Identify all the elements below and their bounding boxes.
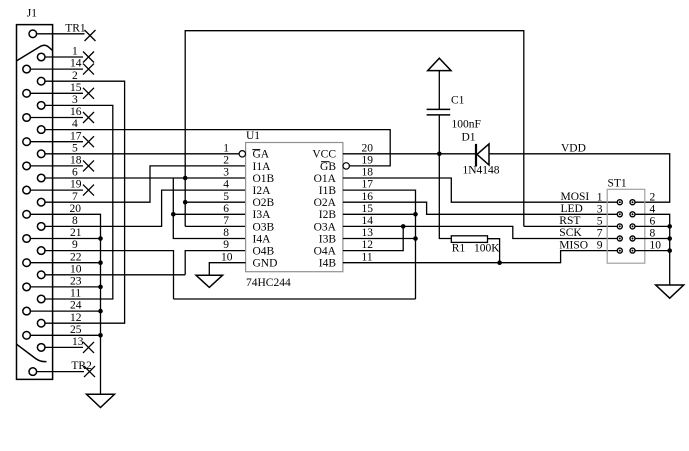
svg-text:TR1: TR1: [65, 22, 86, 34]
diode D1 1N4148: [476, 144, 489, 167]
junction rail/O2B: [183, 200, 188, 205]
svg-text:13: 13: [362, 227, 374, 239]
wire U1 pin12 O4A joins O3A: [343, 226, 403, 250]
svg-text:O2B: O2B: [253, 197, 275, 209]
svg-text:O1B: O1B: [253, 173, 275, 185]
svg-text:22: 22: [70, 251, 82, 263]
wire U1 pin14 O3A to ST1 SCK: [343, 226, 617, 238]
svg-text:1N4148: 1N4148: [463, 165, 500, 177]
J1 pin number labels: [65, 22, 92, 372]
J1 pin circles: [23, 30, 45, 375]
wire rail to U1 pin7 O3B: [185, 225, 245, 227]
wire J1 pin18 no-connect: [31, 165, 83, 167]
svg-text:10: 10: [70, 263, 82, 275]
wire J1 pin21 ground stub: [31, 238, 101, 240]
svg-text:8: 8: [223, 227, 229, 239]
svg-text:13: 13: [72, 336, 84, 348]
wire U1 pin18 O1A to ST1 MOSI: [343, 178, 617, 202]
svg-text:VCC: VCC: [312, 149, 336, 161]
svg-text:14: 14: [70, 58, 82, 70]
svg-text:J1: J1: [27, 8, 37, 20]
connector J1 body: [17, 25, 53, 380]
svg-text:15: 15: [362, 203, 374, 215]
svg-text:19: 19: [70, 179, 82, 191]
wire J1 pin10 stub: [45, 274, 185, 276]
svg-text:9: 9: [72, 239, 78, 251]
overline on GB: [321, 161, 330, 163]
U1 left pin names: [253, 149, 278, 270]
svg-text:18: 18: [362, 167, 374, 179]
wire U1 pin17 I1B to readback bus: [343, 190, 416, 299]
junction VCC/C1/R1: [437, 152, 442, 157]
svg-text:15: 15: [70, 82, 82, 94]
wire I3A tap: [173, 213, 245, 215]
svg-text:5: 5: [223, 191, 229, 203]
svg-text:24: 24: [70, 300, 82, 312]
svg-text:11: 11: [362, 251, 373, 263]
svg-text:10: 10: [650, 240, 662, 252]
svg-text:1: 1: [223, 142, 229, 154]
svg-text:18: 18: [70, 155, 82, 167]
wire ACK net under U1 to readback bus: [174, 298, 416, 300]
svg-text:12: 12: [362, 239, 374, 251]
svg-text:6: 6: [223, 203, 229, 215]
wire J1 pin14 no-connect: [31, 68, 83, 70]
svg-text:U1: U1: [246, 130, 260, 142]
no-connect X at pin18: [83, 160, 94, 171]
wire J1 pin8 to U1 pin4 I2A: [45, 190, 245, 226]
wire J1 pin2 to J1 pin12 loopback: [45, 81, 124, 323]
junction ST1 pin10/ground: [667, 248, 672, 253]
wire J1 pin24 ground stub: [31, 310, 101, 312]
svg-text:R1: R1: [452, 243, 466, 255]
svg-text:9: 9: [597, 240, 603, 252]
junction ST1 pin6/ground: [667, 224, 672, 229]
svg-text:17: 17: [362, 179, 374, 191]
junction J1 pin24/ground: [98, 309, 103, 314]
no-connect X at pin13: [83, 342, 94, 353]
wire rail to ST1 RST: [524, 225, 617, 227]
ground symbol below U1: [196, 275, 223, 287]
junction J1 pin23/ground: [98, 285, 103, 290]
svg-text:C1: C1: [451, 95, 465, 107]
junction J1 pin25/ground: [98, 333, 103, 338]
svg-text:20: 20: [70, 203, 82, 215]
junction R1/MISO: [497, 260, 502, 265]
wire J1 pin13 no-connect: [45, 346, 83, 348]
svg-text:MOSI: MOSI: [561, 191, 590, 203]
svg-text:SCK: SCK: [559, 227, 582, 239]
wire ST1 pin4 to ground: [636, 214, 670, 285]
svg-text:I1B: I1B: [319, 185, 337, 197]
wire J1 pin23 ground stub: [31, 286, 101, 288]
wire J1 pin6 to U1 pin3 O1B: [45, 177, 245, 179]
no-connect X at pin15: [83, 88, 94, 99]
junction O4A/O3A: [401, 224, 406, 229]
junction I3B/readback: [413, 236, 418, 241]
svg-text:O3B: O3B: [253, 221, 275, 233]
wire D1 anode to VDD / ST1 pin2: [489, 154, 670, 202]
svg-text:I3A: I3A: [253, 209, 272, 221]
svg-text:6: 6: [72, 167, 78, 179]
junction J1 pin21/ground: [98, 236, 103, 241]
junction rail/O1B row: [183, 176, 188, 181]
svg-text:I2B: I2B: [319, 209, 337, 221]
svg-text:19: 19: [362, 155, 374, 167]
junction I3A tap: [171, 212, 176, 217]
svg-text:I3B: I3B: [319, 233, 337, 245]
wire U1 pin11 I4B MISO to ST1 MISO: [343, 251, 617, 263]
svg-text:O1A: O1A: [314, 173, 337, 185]
svg-text:O2A: O2A: [314, 197, 337, 209]
U1 right pin names: [312, 149, 336, 270]
svg-text:2: 2: [223, 155, 229, 167]
wire J1 pin5 to U1 pin1 GA enable: [45, 153, 239, 155]
wire J1 pin20 to ground rail: [31, 214, 101, 394]
wire U1 pin16 O2A to ST1 LED: [343, 202, 617, 214]
svg-text:2: 2: [650, 191, 656, 203]
wire J1 pin22 ground stub: [31, 262, 101, 264]
svg-text:MISO: MISO: [559, 239, 588, 251]
svg-text:8: 8: [650, 228, 656, 240]
wire U1 pin13 I3B to readback bus: [343, 238, 416, 240]
wire J1 pin4 to U1 pin19 GB enable: [45, 130, 390, 166]
svg-text:7: 7: [223, 215, 229, 227]
svg-text:1: 1: [72, 46, 78, 58]
no-connect X at pin19: [83, 185, 94, 196]
wire U1 pin20 VCC rail to diode: [343, 153, 475, 155]
svg-text:7: 7: [72, 191, 78, 203]
svg-text:20: 20: [362, 142, 374, 154]
header ST1 box: [607, 189, 645, 263]
wire J1 TR1 no-connect: [37, 33, 85, 35]
U1 left pin numbers: [221, 142, 233, 263]
svg-text:17: 17: [70, 130, 82, 142]
svg-text:3: 3: [223, 167, 229, 179]
no-connect X at pin14: [83, 64, 94, 75]
svg-text:12: 12: [70, 312, 82, 324]
no-connect X at TR1: [85, 30, 96, 41]
svg-text:GA: GA: [253, 149, 270, 161]
ST1 pin pads: [617, 200, 635, 253]
svg-text:I4A: I4A: [253, 233, 272, 245]
wire J1 pin17 no-connect: [31, 141, 83, 143]
ground symbol below J1: [87, 394, 115, 407]
VCC arrow power symbol: [428, 58, 451, 70]
ST1 pad center dots: [619, 201, 634, 251]
no-connect X at pin16: [83, 112, 94, 123]
svg-text:ST1: ST1: [608, 177, 627, 189]
svg-text:O4B: O4B: [253, 246, 275, 258]
svg-text:16: 16: [70, 106, 82, 118]
svg-text:5: 5: [597, 216, 603, 228]
IC U1 box: [246, 143, 343, 272]
wire R1 right lead to MISO net: [488, 239, 500, 263]
wire J1 pin7 to U1 pin2 I1A: [45, 166, 245, 202]
wire VCC arrow to C1: [438, 71, 440, 110]
svg-text:10: 10: [221, 251, 233, 263]
wire J1 pin15 no-connect: [31, 92, 83, 94]
svg-text:RST: RST: [559, 215, 580, 227]
no-connect X at pin1: [83, 52, 94, 63]
svg-text:5: 5: [72, 142, 78, 154]
junction I2B/readback: [413, 212, 418, 217]
svg-text:7: 7: [597, 228, 603, 240]
svg-text:4: 4: [650, 203, 656, 215]
wire ST1 pin10 ground stub: [636, 250, 670, 252]
U1 pin1 GA inversion bubble: [239, 151, 245, 157]
wire U1 pin10 GND to ground: [209, 263, 245, 276]
ST1 left pin numbers: [597, 191, 603, 251]
svg-text:9: 9: [223, 239, 229, 251]
capacitor C1: [427, 109, 451, 115]
top bus rail: [185, 31, 524, 227]
svg-text:100K: 100K: [474, 243, 500, 255]
wire ST1 pin8 ground stub: [636, 238, 670, 240]
svg-text:O4A: O4A: [314, 246, 337, 258]
U1 pin19 GB inversion bubble: [343, 163, 349, 169]
svg-text:O3A: O3A: [314, 221, 337, 233]
wire J1 pin3 to J1 pin11 loopback: [45, 105, 113, 299]
svg-text:GND: GND: [253, 258, 278, 270]
wire C1 to VCC rail and down to R1: [439, 115, 451, 239]
svg-text:74HC244: 74HC244: [246, 277, 291, 289]
svg-text:21: 21: [70, 227, 82, 239]
svg-text:I1A: I1A: [253, 161, 272, 173]
wire O1B net down to I3A and I4A: [173, 178, 245, 239]
svg-text:25: 25: [70, 324, 82, 336]
wire J1 pin9 down to ACK net: [45, 251, 173, 299]
junction ST1 pin8/ground: [667, 236, 672, 241]
U1 right pin numbers: [362, 142, 374, 263]
svg-text:GB: GB: [320, 161, 336, 173]
junction J1 pin22/ground: [98, 260, 103, 265]
svg-text:I4B: I4B: [319, 258, 337, 270]
svg-text:3: 3: [72, 94, 78, 106]
resistor R1: [451, 236, 487, 243]
wire J1 pin19 no-connect: [31, 189, 83, 191]
ground symbol below ST1: [656, 285, 684, 298]
wire rail tap to U1 pin5 O2B: [185, 201, 245, 203]
svg-text:1: 1: [597, 191, 603, 203]
svg-text:6: 6: [650, 216, 656, 228]
svg-text:LED: LED: [561, 203, 583, 215]
svg-text:2: 2: [72, 70, 78, 82]
svg-text:14: 14: [362, 215, 374, 227]
svg-text:23: 23: [70, 276, 82, 288]
overline on GA: [252, 149, 260, 151]
wire J1 TR2 no-connect: [37, 371, 84, 373]
wire ST1 pin6 ground stub: [636, 225, 670, 227]
wire O4B riser to J1 pin10 wire: [185, 251, 245, 275]
svg-text:16: 16: [362, 191, 374, 203]
wire J1 pin1 no-connect: [45, 56, 83, 58]
svg-text:4: 4: [72, 118, 78, 130]
svg-text:3: 3: [597, 203, 603, 215]
wire U1 pin15 I2B to readback bus: [343, 213, 416, 215]
no-connect X at pin17: [83, 136, 94, 147]
wire J1 pin25 ground stub: [31, 334, 101, 336]
no-connect X at TR2: [84, 366, 95, 377]
svg-text:D1: D1: [462, 132, 476, 144]
svg-text:4: 4: [223, 179, 229, 191]
svg-text:8: 8: [72, 215, 78, 227]
wire J1 pin16 no-connect: [31, 117, 83, 119]
svg-text:100nF: 100nF: [452, 119, 481, 131]
svg-text:VDD: VDD: [561, 142, 586, 154]
svg-text:I2A: I2A: [253, 185, 272, 197]
ST1 right pin numbers: [650, 191, 662, 251]
svg-text:11: 11: [70, 288, 81, 300]
